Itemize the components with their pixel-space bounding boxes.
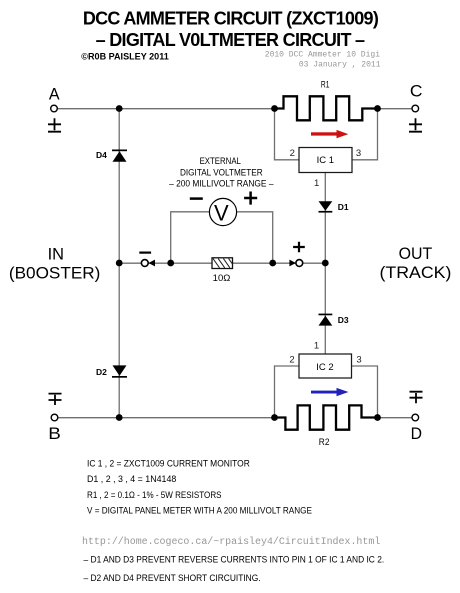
wire IC1 pin3 bbox=[352, 109, 378, 160]
terminal D circle bbox=[412, 414, 419, 421]
svg-text:EXTERNAL: EXTERNAL bbox=[200, 156, 241, 166]
resistor R1 bbox=[275, 96, 378, 120]
terminal A polarity mark bbox=[48, 118, 61, 131]
svg-text:1: 1 bbox=[314, 178, 319, 189]
svg-text:3: 3 bbox=[356, 148, 361, 159]
junction node R2 right bbox=[374, 414, 381, 421]
svg-text:OUT: OUT bbox=[399, 244, 433, 263]
wire left vertical bbox=[118, 109, 120, 418]
svg-text:– DIGITAL V0LTMETER CIRCUIT –: – DIGITAL V0LTMETER CIRCUIT – bbox=[96, 30, 365, 50]
wire middle measurement line bbox=[119, 262, 325, 264]
shunt resistor hatch bbox=[213, 259, 232, 268]
svg-text:IN: IN bbox=[48, 244, 64, 263]
meter minus probe arrowhead bbox=[148, 260, 155, 267]
terminal B circle bbox=[51, 414, 58, 421]
svg-text:DIGITAL VOLTMETER: DIGITAL VOLTMETER bbox=[180, 168, 263, 178]
svg-text:D: D bbox=[411, 425, 422, 443]
svg-text:R2: R2 bbox=[319, 437, 330, 447]
wire node to D3 to IC2 pin1 bbox=[324, 263, 326, 354]
svg-text:R1: R1 bbox=[321, 79, 330, 89]
svg-text:A: A bbox=[49, 86, 60, 104]
svg-text:D2: D2 bbox=[96, 367, 107, 377]
terminal B polarity mark bbox=[49, 394, 62, 405]
svg-text:DCC AMMETER CIRCUIT (ZXCT1009): DCC AMMETER CIRCUIT (ZXCT1009) bbox=[83, 8, 379, 28]
svg-text:– D2 AND D4 PREVENT SHORT CIRC: – D2 AND D4 PREVENT SHORT CIRCUITING. bbox=[84, 573, 261, 583]
svg-text:1: 1 bbox=[314, 340, 319, 351]
svg-text:IC 1 , 2 = ZXCT1009 CURRENT MO: IC 1 , 2 = ZXCT1009 CURRENT MONITOR bbox=[87, 459, 250, 469]
blue current arrow bbox=[311, 388, 349, 396]
junction node voltmeter right leg bbox=[269, 260, 276, 267]
terminal D polarity mark bbox=[410, 392, 423, 404]
svg-text:D3: D3 bbox=[338, 315, 349, 325]
meter plus probe arrowhead bbox=[289, 260, 296, 267]
junction node R2 left bbox=[271, 414, 278, 421]
svg-text:03 January , 2011: 03 January , 2011 bbox=[299, 60, 381, 69]
wire top rail bbox=[57, 108, 412, 110]
svg-text:10Ω: 10Ω bbox=[213, 273, 231, 283]
svg-text:IC 2: IC 2 bbox=[316, 362, 333, 373]
wire IC2 pin2 bbox=[275, 366, 300, 418]
junction node middle-left bbox=[116, 260, 123, 267]
meter plus probe circle bbox=[296, 260, 303, 267]
junction node top-left bbox=[116, 105, 123, 112]
svg-text:2010 DCC Ammeter 10 Digi: 2010 DCC Ammeter 10 Digi bbox=[265, 50, 380, 59]
voltmeter V1 circle bbox=[209, 198, 236, 225]
meter minus sign bbox=[139, 252, 151, 254]
svg-text:http://home.cogeco.ca/~rpaisle: http://home.cogeco.ca/~rpaisley4/Circuit… bbox=[82, 536, 380, 548]
svg-text:IC 1: IC 1 bbox=[317, 155, 334, 166]
svg-text:– D1 AND D3 PREVENT REVERSE CU: – D1 AND D3 PREVENT REVERSE CURRENTS INT… bbox=[84, 554, 385, 564]
svg-text:C: C bbox=[410, 83, 423, 101]
svg-text:V: V bbox=[214, 200, 229, 225]
IC U2 box bbox=[299, 354, 352, 378]
junction node voltmeter left leg bbox=[167, 260, 174, 267]
wire IC1 pin2 bbox=[275, 109, 300, 160]
svg-text:(TRACK): (TRACK) bbox=[380, 263, 452, 282]
diode D1 bbox=[319, 201, 333, 212]
resistor R2 bbox=[275, 405, 378, 429]
svg-text:D4: D4 bbox=[96, 150, 107, 160]
wire bottom rail bbox=[58, 417, 412, 419]
svg-text:B: B bbox=[48, 425, 61, 443]
diode D3 bbox=[319, 314, 333, 326]
meter minus probe circle bbox=[141, 260, 148, 267]
junction node middle-right bbox=[322, 260, 329, 267]
diode D4 bbox=[112, 150, 127, 162]
svg-text:2: 2 bbox=[289, 355, 294, 366]
junction node R1 left bbox=[271, 105, 278, 112]
svg-text:D1: D1 bbox=[338, 202, 349, 212]
diode D2 bbox=[112, 365, 127, 377]
voltmeter plus sign bbox=[244, 192, 257, 205]
svg-text:V = DIGITAL PANEL METER WITH A: V = DIGITAL PANEL METER WITH A 200 MILLI… bbox=[87, 506, 312, 516]
meter plus sign bbox=[293, 242, 305, 253]
svg-text:2: 2 bbox=[290, 148, 295, 159]
wire IC1 pin1 to D1 to node bbox=[324, 173, 326, 264]
terminal A circle bbox=[51, 105, 58, 112]
terminal C polarity mark bbox=[409, 118, 422, 131]
svg-text:3: 3 bbox=[356, 355, 361, 366]
junction node bottom-left bbox=[116, 414, 123, 421]
IC U1 box bbox=[299, 148, 352, 173]
terminal C circle bbox=[412, 105, 419, 112]
wire IC2 pin3 bbox=[352, 366, 378, 418]
shunt resistor 10 ohm box bbox=[212, 258, 233, 269]
svg-text:D1 , 2 , 3 , 4 = 1N4148: D1 , 2 , 3 , 4 = 1N4148 bbox=[87, 474, 176, 484]
voltmeter minus sign bbox=[190, 197, 203, 200]
wire voltmeter loop bbox=[171, 212, 273, 263]
junction node R1 right bbox=[374, 105, 381, 112]
red current arrow bbox=[311, 130, 348, 138]
svg-text:©R0B PAISLEY 2011: ©R0B PAISLEY 2011 bbox=[81, 51, 169, 61]
svg-text:– 200 MILLIVOLT RANGE –: – 200 MILLIVOLT RANGE – bbox=[169, 178, 273, 188]
svg-text:R1 , 2 = 0.1Ω - 1% - 5W RESIS: R1 , 2 = 0.1Ω - 1% - 5W RESISTORS bbox=[87, 490, 222, 500]
svg-text:(B0OSTER): (B0OSTER) bbox=[9, 264, 101, 283]
